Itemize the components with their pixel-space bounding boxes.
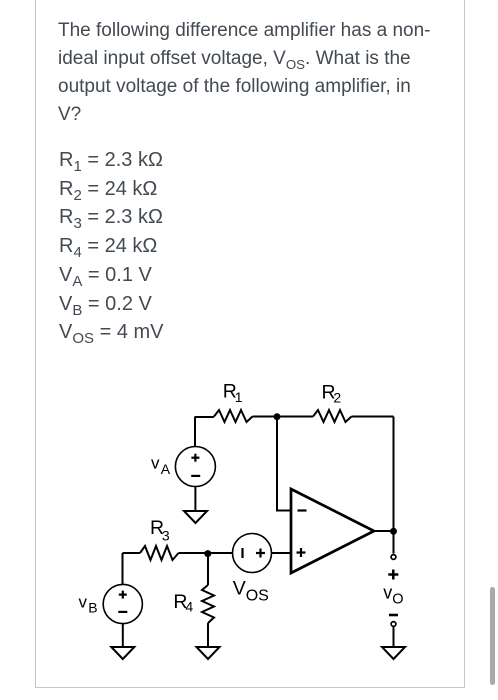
wire VA top lead xyxy=(194,417,196,447)
wire VOS to non-inverting input xyxy=(272,552,292,554)
svg-text:v: v xyxy=(151,453,160,472)
svg-text:OS: OS xyxy=(246,588,269,605)
op-amp U1 xyxy=(291,489,374,573)
VOS + sign xyxy=(256,552,265,554)
bottom panel border xyxy=(35,687,465,688)
wire VB bottom lead xyxy=(122,624,124,647)
svg-text:1: 1 xyxy=(235,389,243,405)
wire R3 to node B xyxy=(179,552,208,554)
scrollbar thumb xyxy=(490,587,495,685)
op-amp non-inverting pin + sign xyxy=(297,551,306,553)
resistor R3 xyxy=(140,546,179,560)
resistor R2 xyxy=(313,410,352,422)
svg-text:B: B xyxy=(88,600,97,616)
terminal vO- open circle xyxy=(391,622,396,627)
wire feedback node A to inverting input xyxy=(277,417,291,511)
wire node O to output terminal xyxy=(393,531,395,554)
wire op-amp output to node O xyxy=(374,530,394,532)
node A junction dot xyxy=(274,413,281,420)
question paragraph xyxy=(58,17,458,129)
VOS - sign (rotated bar) xyxy=(241,548,243,558)
right panel border xyxy=(464,0,465,688)
svg-text:O: O xyxy=(392,592,403,608)
svg-text:v: v xyxy=(79,592,88,611)
wire vO- terminal to ground xyxy=(393,627,395,647)
wire node B to VOS xyxy=(208,552,233,554)
ground VA xyxy=(184,511,207,523)
wire R3 left lead from VB column xyxy=(123,552,141,554)
resistor R1 xyxy=(214,410,253,422)
VB + sign xyxy=(119,593,127,595)
wire R4 top lead xyxy=(207,553,209,585)
wire VA bottom lead xyxy=(194,487,196,512)
svg-text:3: 3 xyxy=(162,528,170,544)
parameter list xyxy=(59,146,359,347)
output + polarity sign xyxy=(388,573,398,576)
svg-text:4: 4 xyxy=(185,599,193,615)
wire R4 bottom lead xyxy=(207,623,209,647)
svg-text:V: V xyxy=(233,577,246,599)
wire output column down xyxy=(393,417,395,532)
svg-text:A: A xyxy=(161,461,171,477)
node B junction dot xyxy=(204,550,211,557)
source VOS circle xyxy=(233,534,272,573)
ground VB xyxy=(111,647,134,659)
node O junction dot xyxy=(390,528,397,535)
VA + sign xyxy=(191,457,199,459)
resistor R4 xyxy=(202,585,214,623)
terminal vO+ open circle xyxy=(391,555,396,560)
op-amp inverting pin - sign xyxy=(298,509,307,511)
wire R1 to node A xyxy=(253,416,314,418)
output - polarity sign xyxy=(389,614,398,617)
VB - sign xyxy=(118,611,127,613)
VA - sign xyxy=(191,475,200,477)
wire R2 to output column xyxy=(352,416,394,418)
ground output xyxy=(382,647,405,659)
wire top-left lead to R1 xyxy=(195,416,214,418)
svg-text:v: v xyxy=(383,583,392,603)
left panel border xyxy=(35,0,36,688)
ground R4 xyxy=(197,647,220,659)
svg-text:2: 2 xyxy=(333,390,341,406)
source VB circle xyxy=(103,584,142,623)
source VA circle xyxy=(175,447,215,487)
wire VB top lead xyxy=(122,553,124,585)
